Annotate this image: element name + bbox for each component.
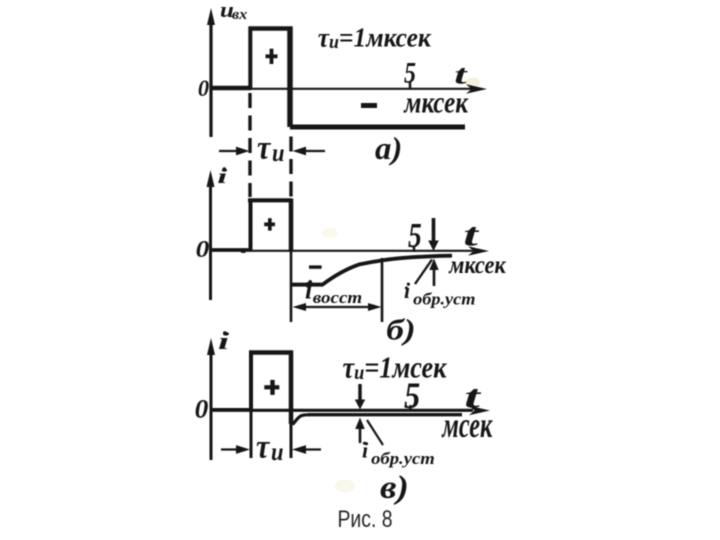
axis t (plot v) — [211, 409, 473, 412]
pulse b top — [248, 198, 292, 202]
axis Y (i, plot b) — [209, 184, 212, 300]
svg-text:τ: τ — [257, 128, 272, 166]
arrow down to axis (plot b) — [432, 218, 436, 242]
label 0 (plot v) — [195, 394, 209, 423]
wire steady reverse current (plot v) — [308, 413, 462, 416]
label tau_u = 1 mksek (plot a) — [318, 21, 433, 53]
dashed line left (pulse a front) — [248, 93, 251, 197]
label u_vx — [220, 0, 248, 23]
svg-text:мксек: мксек — [403, 86, 468, 120]
arrowhead tau left (plot v) — [236, 445, 250, 454]
recovery spike (plot v) — [293, 415, 311, 425]
scan smudge near arrow a — [465, 78, 480, 88]
pulse a top — [249, 26, 293, 31]
svg-text:в): в) — [380, 469, 409, 506]
label mksek (plot a) — [403, 86, 468, 120]
svg-text:0: 0 — [196, 236, 210, 263]
label tau_u = 1 msek (plot v) — [343, 352, 448, 385]
arrow tau right (plot a) — [303, 150, 325, 152]
pulse b right edge — [289, 199, 294, 251]
svg-text:i: i — [404, 278, 411, 303]
wire baseline before pulse (plot b) — [211, 248, 251, 251]
arrowhead tau right (plot v) — [292, 445, 306, 454]
svg-text:а): а) — [375, 131, 402, 166]
dot of label i (plot b) — [223, 167, 226, 170]
label 5 (plot b) — [408, 216, 422, 255]
axis t (plot b) — [211, 250, 474, 252]
pulse v top — [249, 350, 293, 355]
axis t arrowhead (plot a) — [466, 84, 487, 94]
pulse v left edge below axis — [250, 411, 253, 458]
label i_vosst (plot b) — [305, 276, 362, 308]
pulse v right edge — [289, 351, 294, 425]
dot of label i_obr_ust (plot v) — [363, 442, 366, 445]
double arrow t_vosst (plot b) — [298, 306, 377, 308]
arrowhead down (plot v) — [355, 400, 365, 410]
pulse a right edge — [287, 27, 293, 128]
axis Y arrowhead (plot v) — [207, 338, 215, 355]
svg-text:вх: вх — [232, 7, 248, 23]
boundary line right of t_vosst (plot b) — [381, 258, 384, 322]
arrowhead tau left (plot a) — [236, 147, 250, 156]
svg-text:τи=1мсек: τи=1мсек — [343, 352, 448, 385]
axis Y arrowhead — [207, 8, 215, 25]
scan smudge near v) — [335, 480, 355, 493]
label mksek (plot b) — [448, 252, 506, 280]
dot of label i (plot v) — [223, 331, 227, 335]
svg-text:восст: восст — [313, 288, 362, 307]
arrow up to current (plot v) — [359, 429, 362, 443]
svg-text:i: i — [362, 438, 369, 463]
svg-text:i: i — [305, 276, 313, 305]
tick 5 (plot b) — [413, 246, 416, 252]
recovery curve (plot b) — [322, 256, 452, 285]
svg-text:0: 0 — [198, 76, 209, 101]
svg-text:t: t — [463, 217, 480, 253]
svg-text:и: и — [271, 439, 284, 467]
label b) — [386, 314, 415, 347]
label t (plot b) — [463, 217, 480, 253]
label 0 (plot a) — [198, 76, 209, 101]
axis t arrowhead (plot v) — [469, 406, 490, 416]
arrowhead up (plot v) — [355, 418, 365, 430]
dot of label i_obr_ust (plot b) — [405, 287, 408, 290]
arrow up to curve (plot b) — [433, 269, 436, 286]
tick 5 (plot a) — [409, 81, 412, 88]
svg-text:Рис. 8: Рис. 8 — [338, 506, 393, 533]
scan smudge near plot b — [322, 228, 338, 238]
svg-text:б): б) — [386, 314, 415, 347]
label tau_u (plot a) — [257, 128, 285, 168]
dot of label i_vosst — [306, 282, 309, 285]
svg-text:мксек: мксек — [448, 252, 506, 280]
svg-text:0: 0 — [195, 394, 209, 423]
wire baseline before pulse (plot v) — [211, 408, 252, 411]
label 0 (plot b) — [196, 236, 210, 263]
label i (plot b) — [217, 165, 228, 188]
arrowhead down (plot b) — [428, 241, 439, 252]
leader line i_obr_ust (plot v) — [367, 420, 383, 445]
pulse v left edge — [249, 351, 253, 412]
wire baseline before pulse (plot a) — [211, 86, 251, 90]
double arrow left head — [293, 303, 307, 311]
dashed line right (pulse a back) — [289, 137, 292, 198]
label a) — [375, 131, 402, 166]
artifact tick on axis (plot b) — [241, 250, 246, 253]
pulse a left edge — [248, 27, 252, 90]
svg-text:обр.уст: обр.уст — [371, 449, 435, 468]
label tau_u (plot v) — [256, 427, 284, 467]
pulse v right edge below axis — [290, 421, 293, 458]
axis t arrowhead (plot b) — [468, 246, 489, 256]
plus sign (plot a) — [266, 49, 278, 64]
arrow down to axis (plot v) — [358, 384, 362, 400]
arrow tau left (plot v) — [221, 448, 240, 450]
minus sign (plot a) — [361, 103, 377, 108]
axis Y (u_vx) — [209, 22, 212, 137]
tick 5 (plot v) — [409, 405, 412, 411]
arrowhead tau right (plot a) — [293, 147, 307, 156]
arrow tau right (plot v) — [304, 448, 321, 450]
label 5 (plot a) — [404, 56, 416, 89]
svg-text:мсек: мсек — [441, 405, 494, 445]
svg-text:τи=1мксек: τи=1мксек — [318, 21, 433, 53]
plus sign (plot b) — [264, 218, 275, 230]
arrow tau left (plot a) — [219, 150, 240, 152]
wire vertical below axis (plot b, recovery boundary left) — [290, 250, 293, 322]
label t (plot v) — [464, 378, 481, 414]
label i_obr_ust (plot b) — [404, 278, 476, 309]
svg-text:обр.уст: обр.уст — [413, 290, 475, 309]
plus sign (plot v) — [264, 380, 279, 395]
label v) — [380, 469, 409, 506]
pulse b left edge — [249, 199, 253, 251]
double arrow right head — [368, 303, 382, 311]
label msek (plot v) — [441, 405, 494, 445]
axis t (plot a) — [211, 88, 472, 90]
label i (plot v) — [218, 329, 230, 355]
svg-text:и: и — [272, 140, 285, 168]
wire flat bottom (plot b) — [291, 283, 323, 287]
minus sign (plot b) — [309, 265, 322, 268]
label i_obr_ust (plot v) — [362, 438, 435, 469]
arrowhead up (plot b) — [429, 259, 438, 271]
label t (plot a) — [454, 59, 468, 89]
label 5 (plot v) — [404, 375, 420, 416]
axis Y (i, plot v) — [210, 352, 213, 460]
svg-text:τ: τ — [256, 427, 271, 465]
wire negative level (plot a) — [290, 125, 465, 130]
axis Y arrowhead (plot b) — [207, 170, 215, 187]
leader line i_obr_ust (plot b) — [415, 260, 432, 285]
